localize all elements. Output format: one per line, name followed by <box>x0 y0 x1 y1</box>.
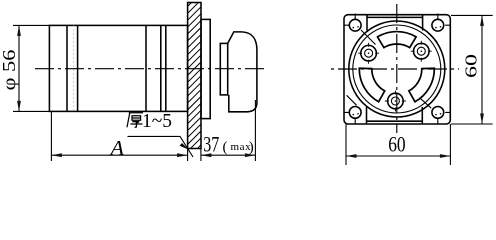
screw top-left <box>344 14 361 32</box>
label thickness glyph 厚 <box>127 113 143 128</box>
dim 60 right arrow down <box>480 114 484 125</box>
roller bottom <box>385 91 406 112</box>
svg-text:(: ( <box>223 140 228 156</box>
phi56 bottom ext <box>13 110 49 112</box>
panel hatch <box>180 0 208 166</box>
drum divider faint <box>73 25 75 111</box>
handle flange <box>220 43 227 95</box>
37 ext right <box>254 100 256 161</box>
dim 60 bottom ext left <box>345 124 347 165</box>
front centerline vertical <box>396 4 398 133</box>
big circle <box>349 21 445 117</box>
bottom tab <box>367 107 423 124</box>
wedge lower-left <box>359 68 384 102</box>
dim 60 bottom line <box>346 155 450 157</box>
dim 60 right arrow up <box>480 15 484 26</box>
front square plate <box>344 15 450 124</box>
dim 60 right ext bottom <box>451 123 493 125</box>
roller upper-left <box>358 43 379 64</box>
corner diagonal TR <box>428 33 437 42</box>
dim 60 right ext top <box>451 14 493 16</box>
panel ext left down <box>187 149 189 162</box>
screw top-right <box>432 14 450 32</box>
A dim line <box>51 154 187 156</box>
thickness leader <box>128 136 194 157</box>
screw bottom-right <box>432 107 450 125</box>
A arrow left <box>51 153 62 157</box>
drum divider 5 <box>165 25 167 111</box>
wedge top <box>378 32 417 48</box>
top tab <box>367 15 423 31</box>
svg-text:60: 60 <box>388 131 405 156</box>
drum divider 4 <box>160 25 162 111</box>
corner diagonal BR <box>421 99 431 108</box>
phi56 arrow down <box>17 101 21 112</box>
svg-text:60: 60 <box>461 54 480 78</box>
handle knob <box>228 32 257 112</box>
phi56 top ext <box>13 24 49 26</box>
dim 60 right line <box>481 15 483 124</box>
37 dim line <box>201 154 256 156</box>
body outline (drum) <box>49 25 187 111</box>
svg-text:φ 56: φ 56 <box>0 50 19 91</box>
inner circle <box>353 25 441 113</box>
drum divider 2 <box>77 25 79 111</box>
screw bottom-left <box>344 107 361 125</box>
front centerline horizontal <box>331 68 459 70</box>
svg-text:37: 37 <box>203 131 219 156</box>
corner diagonal BL <box>347 95 357 105</box>
A dim ext left <box>50 111 52 161</box>
drum divider 3 <box>145 25 147 111</box>
wedge lower-right <box>409 68 434 102</box>
svg-text:1~5: 1~5 <box>142 110 172 132</box>
A arrow right <box>177 153 188 157</box>
panel ext right down <box>200 149 202 162</box>
roller upper-right <box>411 41 432 62</box>
dim 60 bottom arrow right <box>440 154 451 158</box>
corner diagonal TL <box>361 30 376 45</box>
svg-text:A: A <box>108 136 124 160</box>
37 arrow right <box>245 153 256 157</box>
dim 60 bottom arrow left <box>346 154 357 158</box>
drum divider 1 <box>66 25 68 111</box>
dim 60 bottom ext right <box>449 124 451 165</box>
37 arrow left <box>201 153 212 157</box>
mounting panel (hatched) <box>188 3 201 149</box>
handle boss <box>201 19 210 118</box>
svg-text:): ) <box>249 140 254 156</box>
phi56 arrow up <box>17 25 21 36</box>
phi56 dim line <box>18 25 20 111</box>
centerline left view <box>35 68 265 70</box>
thickness leader arrow <box>180 143 189 149</box>
